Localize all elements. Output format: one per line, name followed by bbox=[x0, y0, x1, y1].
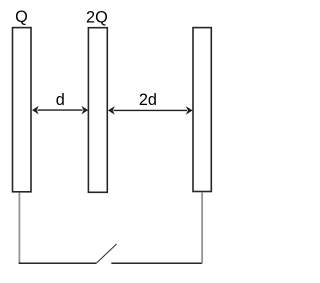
svg-text:2d: 2d bbox=[139, 91, 157, 109]
wire from P3 bottom down to switch loop bbox=[201, 192, 203, 263]
plate P1 (charge Q) bbox=[13, 28, 32, 192]
plate P2 (charge 2Q) bbox=[88, 28, 107, 193]
svg-text:2Q: 2Q bbox=[86, 9, 108, 27]
wire from P1 bottom down to switch loop bbox=[18, 193, 20, 264]
dimension arrow 2d (between P2 and P3) bbox=[108, 106, 193, 115]
dimension arrow d (between P1 and P2) bbox=[32, 106, 88, 115]
wire bottom left segment bbox=[19, 261, 96, 264]
plate P3 bbox=[193, 28, 211, 192]
switch S (open blade) bbox=[96, 244, 117, 264]
wire bottom right segment bbox=[111, 262, 202, 264]
svg-text:d: d bbox=[56, 91, 65, 109]
svg-text:Q: Q bbox=[15, 8, 28, 26]
